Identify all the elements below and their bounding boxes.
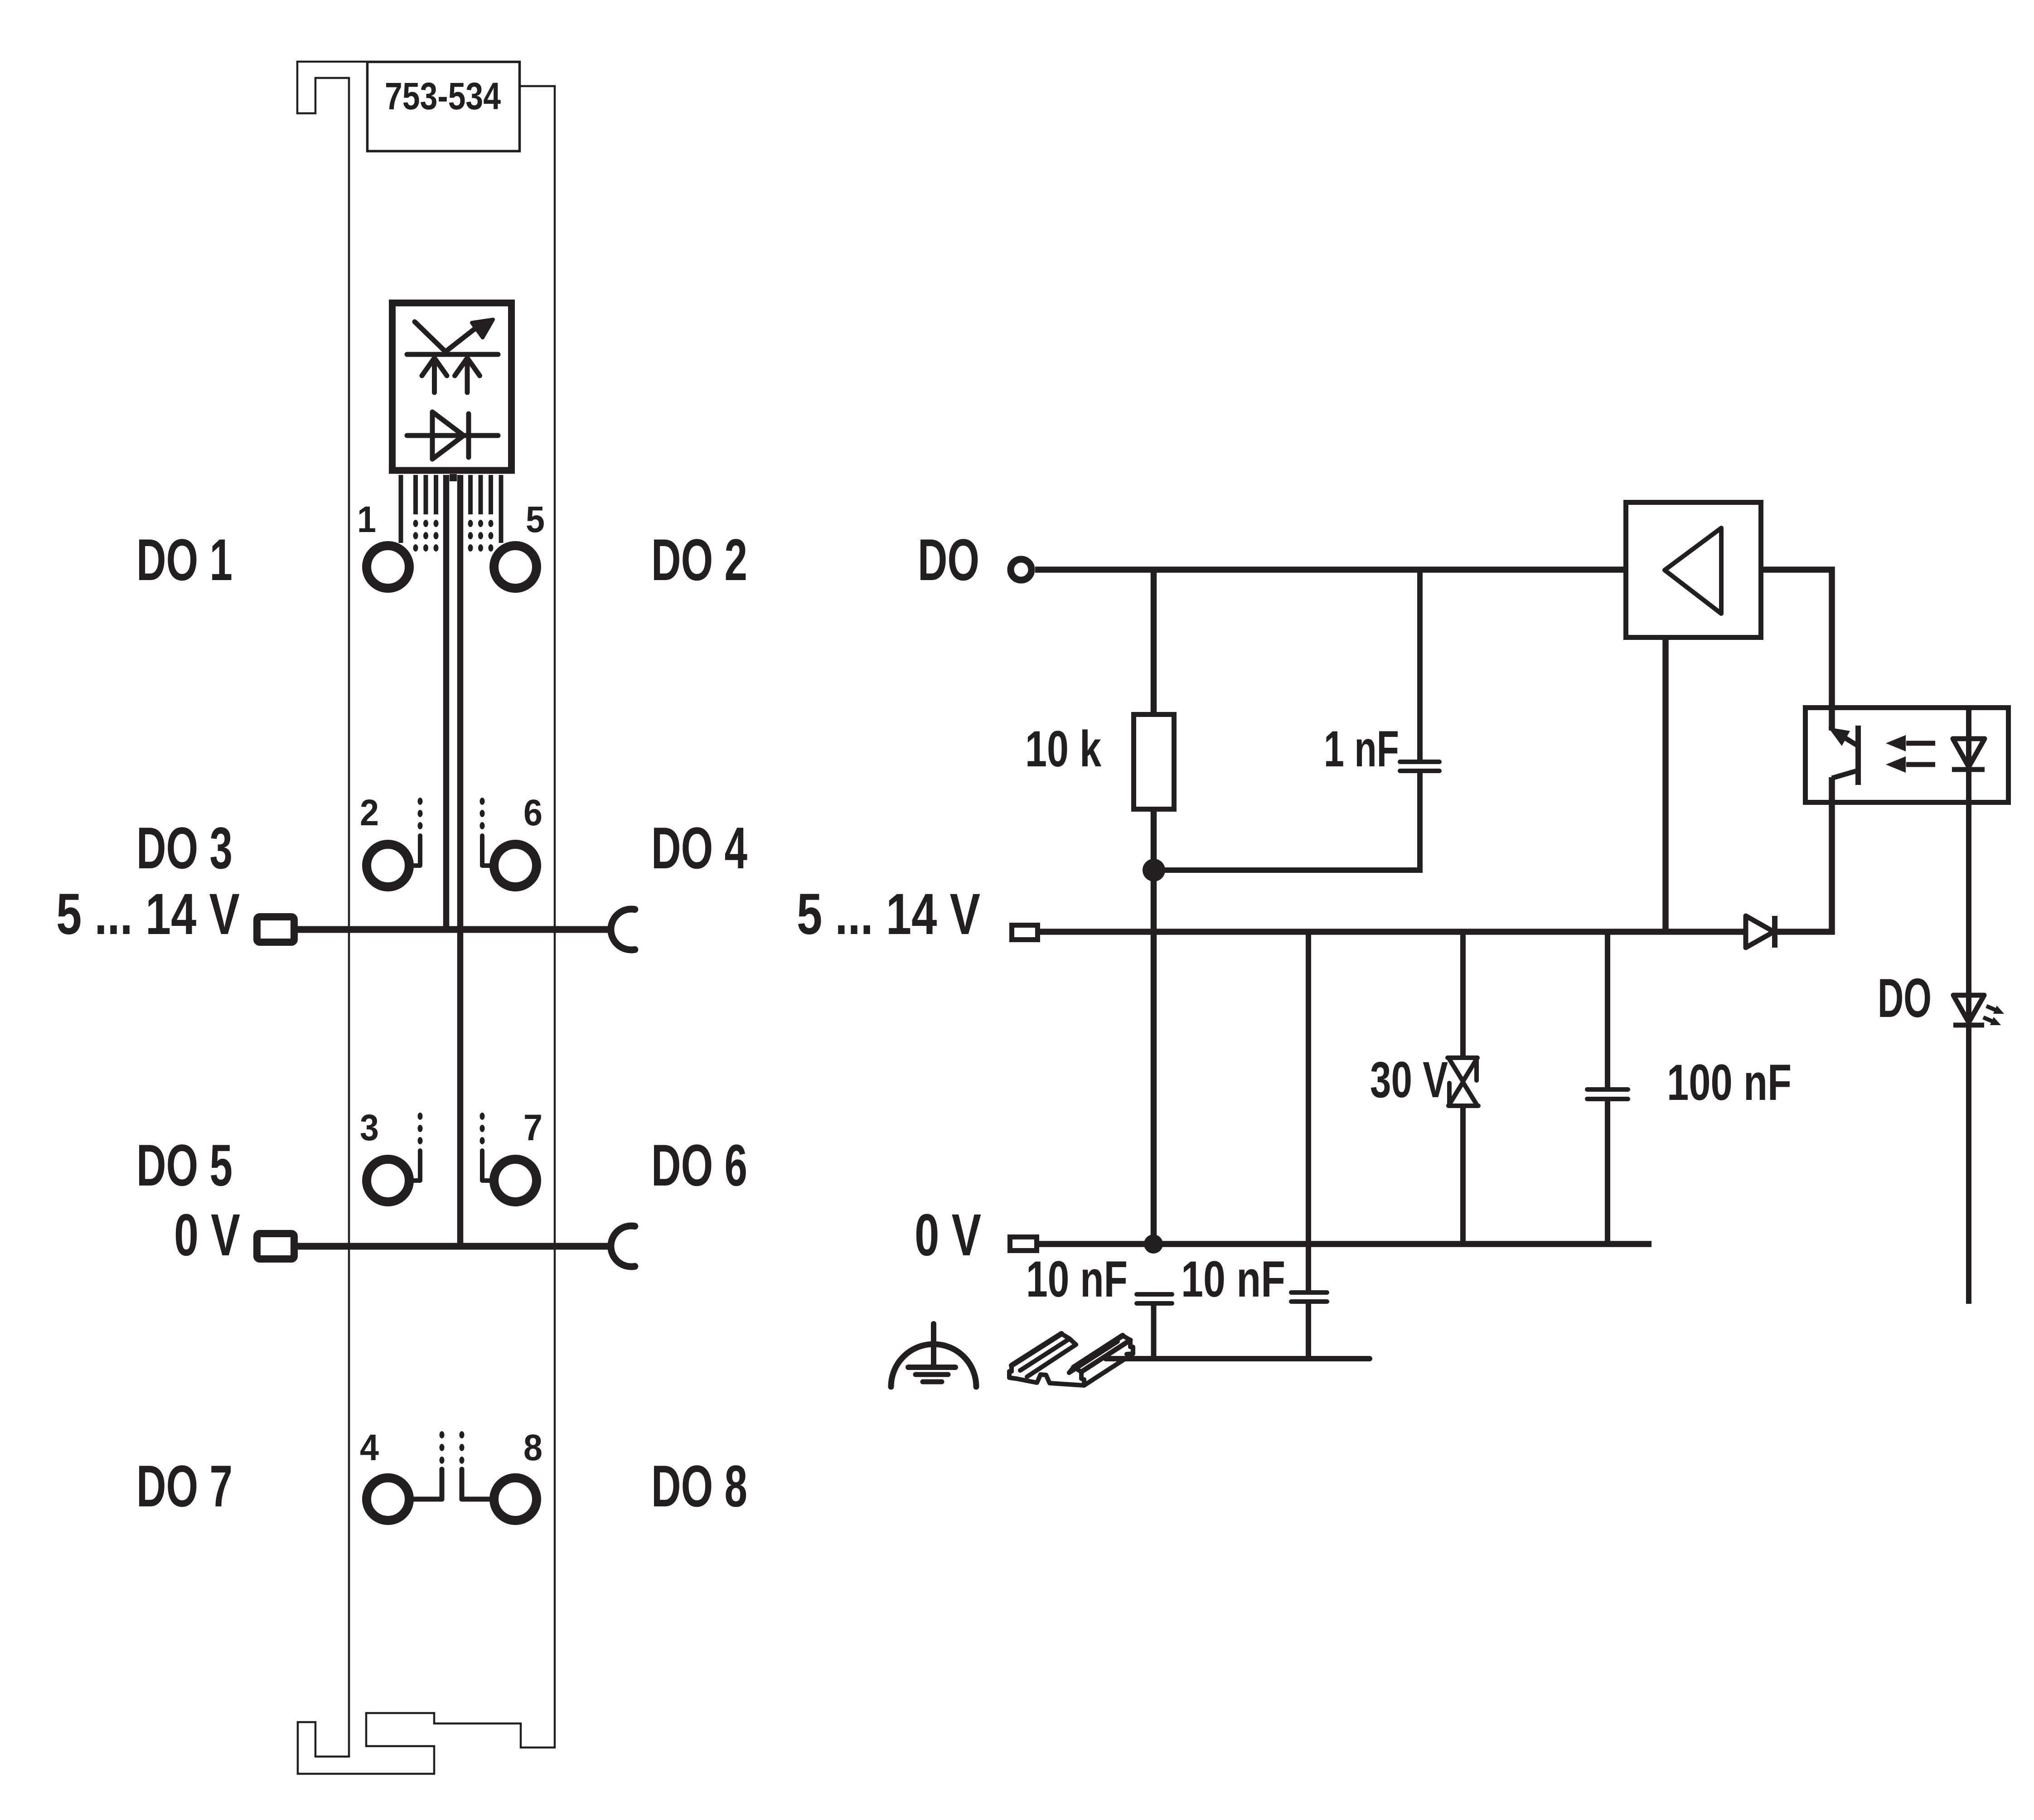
svg-text:5 ... 14 V: 5 ... 14 V <box>56 882 240 947</box>
svg-text:0 V: 0 V <box>915 1201 981 1268</box>
dashed stub terminal 6 <box>480 798 490 866</box>
terminal 8 <box>494 1478 537 1520</box>
wire: C3 to earth line <box>1151 1306 1157 1359</box>
terminal 2 <box>367 844 409 887</box>
svg-text:753-534: 753-534 <box>385 75 501 117</box>
capacitor C4 10nF <box>1291 1292 1327 1302</box>
wire: DO to amplifier <box>1035 566 1625 573</box>
wire: 1nF bottom to node A <box>1154 773 1420 870</box>
diode D1 (series) <box>1746 916 1775 948</box>
svg-text:DO 1: DO 1 <box>136 527 232 593</box>
wire: 5...14V power rail (module) <box>298 926 608 933</box>
capacitor C3 10nF <box>1137 1294 1172 1303</box>
pin 1 lead <box>399 475 403 543</box>
dashed stub terminal 7 <box>480 1113 490 1181</box>
terminal 5 <box>494 546 537 588</box>
wire: 5...14V rail (circuit) <box>1040 929 1746 935</box>
wire: 0V power rail (module) <box>298 1243 608 1250</box>
svg-text:100 nF: 100 nF <box>1667 1054 1792 1111</box>
terminal box 0V (circuit) <box>1010 1237 1037 1251</box>
wire: 0V rail (circuit) <box>1039 1241 1651 1247</box>
wire: amplifier output to optocoupler collector <box>1763 570 1832 731</box>
wire: branch to 100nF <box>1605 932 1610 1089</box>
terminal 6 <box>494 844 537 887</box>
terminal 4 <box>367 1478 409 1520</box>
dashed stub terminal 4 <box>413 1431 445 1499</box>
logic block U1 (output driver) <box>392 303 512 471</box>
terminal box 0V (module) <box>257 1234 294 1259</box>
wire: branch to 10nF cap 2 <box>1306 932 1311 1291</box>
wire: DO branch down to resistor <box>1151 570 1157 715</box>
svg-text:DO 3: DO 3 <box>136 815 232 881</box>
earth line <box>1106 1356 1370 1361</box>
wire: center bus line to 0V rail <box>457 475 464 1246</box>
terminal 3 <box>367 1159 409 1202</box>
svg-text:1 nF: 1 nF <box>1324 721 1399 777</box>
module outline 753-534 bus terminal body <box>297 62 555 1774</box>
wire: 100nF to 0V rail <box>1605 1101 1610 1244</box>
suppressor diode 30V <box>1448 1058 1478 1106</box>
junction node B on 0V <box>1144 1234 1163 1254</box>
terminal 1 <box>367 546 409 588</box>
svg-text:4: 4 <box>360 1427 379 1468</box>
svg-text:30 V: 30 V <box>1370 1051 1448 1108</box>
amplifier U2 <box>1626 503 1761 638</box>
svg-text:7: 7 <box>523 1107 542 1148</box>
wire: suppressor to 0V rail <box>1460 1106 1466 1244</box>
node DO input circle <box>1011 559 1032 580</box>
resistor R1 10k <box>1134 715 1174 809</box>
svg-text:DO: DO <box>1878 967 1932 1029</box>
svg-text:DO 7: DO 7 <box>136 1453 232 1519</box>
svg-text:5: 5 <box>526 499 545 540</box>
wire: center bus line to 5...14V rail <box>443 475 450 929</box>
wire: C4 to earth line <box>1306 1304 1311 1359</box>
svg-text:1: 1 <box>357 499 376 540</box>
svg-text:DO 6: DO 6 <box>651 1132 747 1198</box>
dashed stub terminal 8 <box>460 1431 491 1499</box>
svg-text:0 V: 0 V <box>174 1201 240 1268</box>
wire: resistor to 0V rail <box>1151 809 1157 1244</box>
svg-text:DO 5: DO 5 <box>136 1132 232 1198</box>
dashed stub terminal 3 <box>414 1113 423 1181</box>
svg-text:5 ... 14 V: 5 ... 14 V <box>797 882 980 947</box>
dashed stub terminal 2 <box>414 798 423 866</box>
pin 5 lead <box>499 475 504 543</box>
svg-text:8: 8 <box>523 1427 542 1468</box>
capacitor C2 100nF <box>1587 1089 1628 1099</box>
DIN rail symbol <box>1009 1334 1133 1385</box>
junction node A <box>1143 859 1165 881</box>
power jumper contact arc (5...14V) <box>611 909 635 950</box>
svg-text:2: 2 <box>360 792 379 833</box>
wire: branch to 30V suppressor <box>1460 932 1466 1058</box>
svg-text:10 nF: 10 nF <box>1026 1251 1128 1307</box>
terminal box 5...14V (module) <box>257 917 294 942</box>
wire: optocoupler LED cathode down to DO LED <box>1966 707 1971 1304</box>
power jumper contact arc (0V) <box>611 1226 635 1267</box>
svg-text:6: 6 <box>523 792 542 833</box>
ground symbol (functional earth) <box>891 1324 976 1387</box>
LED DO indicator <box>1953 995 2004 1025</box>
svg-text:3: 3 <box>360 1107 379 1148</box>
label box <box>368 62 520 151</box>
dotted pin continuations <box>413 520 494 552</box>
optocoupler U3 <box>1806 708 2009 803</box>
svg-text:DO 4: DO 4 <box>651 815 747 881</box>
svg-text:DO 8: DO 8 <box>651 1453 747 1519</box>
terminal box 5...14V (circuit) <box>1012 925 1038 940</box>
wire: amplifier bottom to 5...14V rail <box>1662 639 1669 932</box>
svg-text:DO: DO <box>918 527 979 593</box>
short pins <box>416 474 491 514</box>
svg-text:10 k: 10 k <box>1025 721 1102 777</box>
wire: diode to optocoupler emitter <box>1775 777 1832 932</box>
svg-text:DO 2: DO 2 <box>651 527 747 593</box>
terminal 7 <box>494 1159 537 1202</box>
svg-text:10 nF: 10 nF <box>1181 1251 1285 1307</box>
wire: 1nF top branch <box>1417 570 1423 760</box>
capacitor C1 1nF <box>1400 762 1439 771</box>
